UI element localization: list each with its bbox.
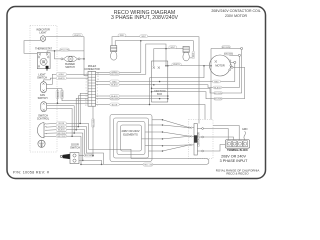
svg-text:9: 9: [97, 82, 98, 84]
junction jbox white: [167, 65, 169, 67]
junction box terminal 1: [153, 67, 155, 69]
motor terminal 2: [238, 54, 240, 56]
wire label RED lamp1: [118, 34, 126, 37]
motor terminal 3: [234, 61, 236, 63]
svg-text:3 PHASE INPUT: 3 PHASE INPUT: [220, 159, 248, 163]
wire drop sc4: [82, 133, 84, 160]
junction lsw a: [57, 103, 59, 105]
svg-text:BROWN: BROWN: [225, 53, 233, 55]
svg-text:BLUE: BLUE: [112, 104, 118, 106]
oven lamp L1: [111, 46, 117, 60]
wire motor lead 3: [230, 61, 234, 63]
svg-text:CONTROL: CONTROL: [37, 118, 50, 121]
wire label BLUE sc1: [56, 122, 66, 125]
svg-text:2: 2: [86, 76, 87, 78]
door switch DS1: [60, 153, 79, 164]
svg-text:P/N: 10058 REV: #: P/N: 10058 REV: #: [13, 170, 50, 174]
contactor pin R1: [202, 128, 204, 130]
svg-text:WHT: WHT: [170, 47, 175, 49]
junction jbox x2: [159, 98, 161, 100]
switch control connector J2: [37, 123, 47, 138]
junction bus stub: [149, 104, 151, 106]
wire sc2 to vertical: [67, 126, 87, 128]
wire black short bus: [96, 95, 168, 97]
wire fan switch a: [47, 102, 88, 104]
svg-text:10: 10: [97, 79, 99, 81]
wire brown bus 2: [152, 49, 242, 93]
wire label BROWN m1: [222, 46, 231, 49]
wire grey bus: [96, 41, 141, 73]
svg-text:8: 8: [86, 93, 87, 95]
junction box terminal 2: [158, 67, 160, 69]
svg-text:WHITE: WHITE: [58, 78, 65, 80]
junction buzzer vertical: [83, 58, 85, 60]
junction jbox x1: [159, 81, 161, 83]
wire switch control pin 2: [46, 126, 56, 129]
wire contactor L1 stub: [192, 127, 194, 129]
wire label YELLOW: [60, 48, 70, 51]
junction white 204: [203, 65, 205, 67]
wire label BROWN ds: [84, 154, 94, 157]
wire element exit 2: [149, 124, 163, 126]
wire brown bus 3: [152, 67, 245, 99]
wire switch control pin 1: [46, 122, 56, 125]
junction motor white: [210, 65, 212, 67]
wire drop sc3: [84, 130, 86, 156]
wire label BROWN bus: [110, 73, 120, 76]
wire black bus: [96, 55, 240, 87]
svg-text:5: 5: [86, 85, 87, 87]
svg-text:3 PHASE INPUT, 208V/240V: 3 PHASE INPUT, 208V/240V: [111, 15, 178, 21]
svg-text:230V MOTOR: 230V MOTOR: [225, 14, 248, 18]
wire bus mid 78: [150, 66, 205, 78]
svg-text:YELLOW: YELLOW: [144, 164, 153, 166]
wire light switch bottom: [46, 88, 62, 90]
wire label WHITE: [73, 34, 83, 37]
svg-text:BROWN: BROWN: [214, 99, 222, 101]
contactor K1 body: [194, 124, 197, 156]
svg-text:SWITCH: SWITCH: [65, 66, 75, 69]
svg-text:BROWN: BROWN: [111, 74, 119, 76]
thermostat TS1: [37, 53, 50, 71]
svg-text:BROWN: BROWN: [57, 133, 65, 135]
svg-text:BROWN: BROWN: [111, 98, 119, 100]
wire label WHITE ls2: [56, 77, 66, 80]
wire contactor to block 2: [204, 137, 234, 140]
wire door switch bottom: [79, 160, 102, 164]
wire staircase 1: [80, 93, 88, 123]
junction brown short: [167, 98, 169, 100]
wire label RED bus: [110, 80, 120, 83]
junction sc5: [71, 135, 73, 137]
wire buzzer left feed: [55, 51, 61, 59]
wire element diag 5: [163, 144, 190, 147]
wire fan switch c: [47, 108, 73, 136]
wire motor lead 1: [211, 48, 241, 50]
junction brown3 left: [151, 91, 153, 93]
molex connector J1: [88, 71, 96, 106]
wire switch control pin 3: [46, 129, 56, 131]
wire element exit 1: [152, 119, 163, 121]
wire motor coil drop: [210, 49, 212, 120]
svg-text:6: 6: [86, 88, 87, 90]
wire light switch top: [44, 78, 89, 82]
junction black short: [167, 95, 169, 97]
svg-text:SWITCH: SWITCH: [37, 76, 47, 79]
junction element exit 1: [162, 119, 164, 121]
motor terminal 4: [231, 66, 233, 68]
svg-text:3: 3: [97, 99, 98, 101]
fan switch SW2: [41, 102, 47, 112]
contactor pin R3: [202, 150, 204, 152]
svg-text:9: 9: [86, 96, 87, 98]
light switch SW1: [41, 82, 47, 93]
ground chassis symbol: [38, 140, 45, 147]
wire label YELLOW: [143, 163, 153, 166]
wire label BROWN sc4: [56, 132, 66, 135]
border frame: [7, 7, 266, 179]
oven lamp L2: [183, 46, 189, 60]
svg-text:CONNECTOR: CONNECTOR: [84, 68, 100, 71]
svg-text:CONTACTOR: CONTACTOR: [197, 132, 200, 147]
element loop 3: [117, 122, 145, 155]
element loop 1: [110, 115, 152, 162]
svg-text:GREY: GREY: [58, 74, 65, 76]
svg-text:WHT: WHT: [141, 36, 146, 38]
wire blue bus: [96, 105, 205, 120]
svg-text:GRN: GRN: [242, 128, 248, 131]
svg-text:1: 1: [97, 105, 98, 107]
wire label WHITE jbox: [172, 63, 182, 66]
svg-text:6: 6: [97, 90, 98, 92]
wire element exit 3: [145, 131, 163, 133]
svg-text:11: 11: [85, 102, 87, 104]
junction brown2 left: [151, 88, 153, 90]
junction element exit 3: [162, 131, 164, 133]
svg-text:12: 12: [97, 73, 99, 75]
wire brown bus up: [96, 44, 166, 74]
wire contactor L2 stub: [192, 135, 194, 137]
svg-text:BROWN: BROWN: [214, 93, 222, 95]
svg-text:BLUE: BLUE: [59, 123, 65, 125]
wire element exit 4: [142, 138, 163, 140]
wire contactor R1 stub: [197, 128, 201, 130]
wire label BROWN bus r3: [214, 97, 223, 100]
junction element exit 2: [162, 124, 164, 126]
wire element diag 1: [163, 120, 190, 128]
svg-text:BROWN: BROWN: [85, 155, 93, 157]
svg-text:RED: RED: [193, 52, 195, 57]
svg-text:BROWN: BROWN: [57, 136, 65, 138]
junction box outline: [152, 61, 168, 102]
vertical wire label BROWN: [92, 119, 95, 128]
junction drop sc3: [84, 155, 86, 157]
svg-text:5: 5: [97, 93, 98, 95]
svg-text:12: 12: [85, 105, 87, 107]
junction sc2: [78, 126, 80, 128]
svg-text:BROWN: BROWN: [93, 119, 95, 127]
contactor pin R2: [202, 136, 204, 138]
contactor pin L3: [190, 144, 192, 146]
wire vertical net at x84: [84, 37, 88, 76]
wire element diag 6: [163, 145, 190, 151]
wire bus stub 149: [149, 78, 151, 105]
wire thermostat to yellow net: [47, 51, 84, 53]
svg-text:RECO & RECSO: RECO & RECSO: [226, 172, 249, 176]
element loop 2: [114, 118, 149, 158]
svg-text:BLACK: BLACK: [214, 86, 221, 89]
wire element exit 6: [149, 150, 163, 152]
junction grey lamp: [140, 40, 142, 42]
junction element exit 4: [162, 138, 164, 140]
wire drop sc1: [89, 123, 132, 158]
wire element bottom return: [81, 159, 209, 165]
wire molex brown drop: [92, 106, 94, 155]
wire sc4 to vertical: [67, 132, 83, 134]
wire label BLACK sc3: [56, 128, 66, 131]
junction sc1: [79, 123, 81, 125]
junction ds top: [92, 155, 94, 157]
indicator light IL1: [40, 35, 45, 42]
svg-text:ELEMENTS: ELEMENTS: [123, 132, 138, 136]
wire jbox white out: [168, 65, 211, 67]
junction yellow-buzzer: [54, 50, 56, 52]
element loop 4: [121, 125, 142, 151]
motor terminal 1: [241, 47, 243, 49]
junction ds bottom: [101, 164, 103, 166]
wire door switch top: [79, 155, 93, 157]
wire jbox up to lamp2: [154, 46, 184, 66]
grn squiggle wire: [244, 131, 246, 139]
svg-text:208V OR 240V: 208V OR 240V: [221, 154, 246, 158]
wire motor lead 2: [229, 54, 238, 56]
wire label BROWN bus3: [110, 97, 120, 100]
svg-text:10: 10: [85, 99, 87, 101]
svg-text:BLACK: BLACK: [58, 125, 65, 128]
vertical wire label b: [61, 90, 64, 99]
wire contactor R2 stub: [197, 136, 201, 138]
wire contactor feed top: [213, 126, 239, 140]
svg-text:RED: RED: [214, 81, 219, 83]
wire element diag 4: [163, 136, 190, 139]
junction element exit 6: [162, 150, 164, 152]
junction sc4: [73, 132, 75, 134]
wire label BROWN bus r2: [214, 92, 223, 95]
wire element exit 5: [145, 145, 163, 147]
svg-text:WHITE: WHITE: [173, 64, 180, 66]
wire light sw drop a: [57, 89, 59, 104]
svg-text:YELLOW: YELLOW: [60, 49, 69, 51]
control panel dashed box: [30, 26, 57, 153]
wire indicator to buzzer net: [46, 36, 84, 38]
wire contactor L3 stub: [192, 144, 194, 146]
terminal block TB1: [225, 140, 249, 149]
vertical wire label RED lamp2: [192, 51, 195, 59]
wire red bus: [96, 62, 235, 81]
svg-text:RED: RED: [120, 35, 125, 37]
svg-text:BLACK: BLACK: [58, 129, 65, 132]
junction drop sc4: [82, 160, 84, 162]
wire staircase 3: [76, 98, 88, 130]
svg-text:4: 4: [86, 82, 87, 84]
wire brown short bus: [96, 98, 168, 100]
junction brown white: [165, 65, 167, 67]
wire label BLACK bus2: [110, 95, 120, 98]
wire fan switch b: [47, 106, 75, 133]
svg-text:RED: RED: [112, 81, 117, 83]
wire light switch mid: [46, 74, 88, 84]
wire sc1 to vertical: [67, 122, 89, 124]
wire label BLACK sc2: [56, 125, 66, 128]
wire label GREY bus: [110, 71, 120, 74]
molex pin numbers: [85, 73, 99, 107]
svg-text:JUNCTION: JUNCTION: [154, 91, 166, 93]
wire staircase 2: [78, 96, 88, 127]
wire label BROWN sc5: [56, 135, 66, 138]
wire label BLACK bus: [110, 83, 120, 86]
wire sc5 to vertical: [67, 135, 82, 137]
vertical wire label a: [56, 90, 59, 99]
junction element exit 5: [162, 145, 164, 147]
contactor dashed box: [189, 120, 214, 159]
wire switch control pin 5: [46, 135, 56, 137]
svg-text:TERMINAL BLOCK: TERMINAL BLOCK: [227, 149, 248, 152]
svg-text:7: 7: [97, 88, 98, 90]
svg-text:LIGHT: LIGHT: [39, 32, 47, 35]
wire sc3 to vertical: [67, 129, 85, 131]
junction lamp2 feed: [165, 48, 167, 50]
wire label WHT lamp2: [169, 46, 177, 49]
svg-text:BLACK: BLACK: [111, 84, 118, 87]
svg-text:1: 1: [86, 73, 87, 75]
svg-text:WHITE: WHITE: [74, 35, 81, 37]
wire light sw drop b: [62, 89, 88, 101]
svg-text:SWITCH: SWITCH: [70, 147, 80, 150]
svg-text:4: 4: [97, 96, 98, 98]
wire label GREY ls1: [56, 73, 66, 76]
wire contactor to block 1: [204, 129, 229, 140]
junction jbox x3: [153, 84, 155, 86]
wire drop sc2: [87, 127, 104, 165]
svg-text:3: 3: [86, 79, 87, 81]
svg-text:208V/240V CONTACTOR COIL: 208V/240V CONTACTOR COIL: [211, 9, 260, 13]
wire element diag 3: [163, 132, 190, 136]
svg-text:BROWN: BROWN: [222, 47, 230, 49]
wire lamp1 b: [115, 41, 193, 58]
wire switch control pin 4: [46, 132, 56, 134]
junction drop sc5: [80, 164, 82, 166]
svg-text:THERMOSTAT: THERMOSTAT: [35, 47, 52, 50]
wire label BLUE bus: [110, 103, 120, 106]
wire label BROWN m2: [224, 52, 233, 55]
svg-text:MOTOR: MOTOR: [215, 65, 224, 68]
junction sc3: [75, 129, 77, 131]
wire contactor R3 stub: [197, 150, 201, 152]
contactor pin L1: [190, 127, 192, 129]
wire label WHT lamp1: [140, 35, 148, 38]
wire drop sc5: [80, 136, 82, 164]
wire buzzer right to vertical: [80, 58, 84, 60]
contactor pin L2: [190, 135, 192, 137]
svg-text:SWITCH: SWITCH: [38, 97, 48, 100]
buzzer switch BZ1: [61, 56, 80, 61]
wire contactor to block 3: [204, 145, 226, 152]
wire element diag 2: [163, 125, 190, 128]
wire indicator feed left: [24, 41, 40, 54]
svg-text:2: 2: [97, 102, 98, 104]
wire label BLACK bus r: [213, 86, 222, 89]
svg-text:11: 11: [97, 76, 99, 78]
svg-text:7: 7: [86, 90, 87, 92]
wire lamp1 a: [112, 37, 199, 124]
motor M1: [210, 55, 232, 76]
wire label RED bus r: [213, 80, 221, 83]
